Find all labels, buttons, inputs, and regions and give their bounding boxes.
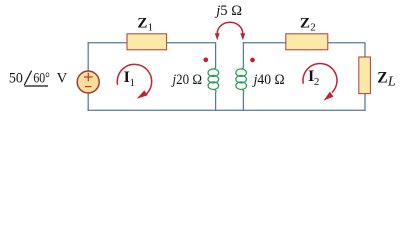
svg-text:Z: Z bbox=[300, 15, 310, 31]
svg-text:Z: Z bbox=[137, 15, 147, 31]
svg-text:V: V bbox=[57, 71, 68, 87]
svg-text:1: 1 bbox=[148, 22, 154, 34]
svg-text:1: 1 bbox=[130, 77, 136, 89]
svg-text:50: 50 bbox=[9, 71, 23, 87]
svg-text:60°: 60° bbox=[33, 71, 50, 87]
svg-text:j5 Ω: j5 Ω bbox=[214, 3, 242, 19]
svg-text:j40 Ω: j40 Ω bbox=[252, 72, 285, 88]
svg-text:L: L bbox=[387, 75, 396, 90]
svg-text:2: 2 bbox=[310, 22, 316, 34]
svg-text:j20 Ω: j20 Ω bbox=[171, 72, 202, 88]
svg-text:Z: Z bbox=[377, 70, 387, 87]
svg-text:2: 2 bbox=[314, 76, 320, 88]
